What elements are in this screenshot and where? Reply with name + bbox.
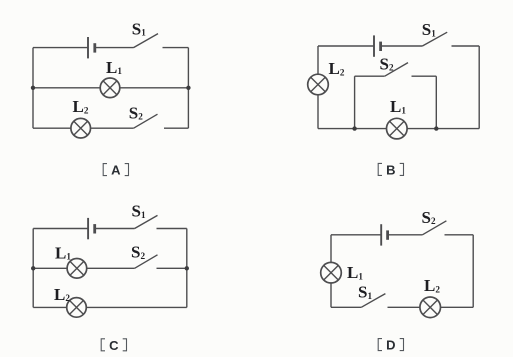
label [A] xyxy=(103,163,128,178)
switch S1 (C) blade xyxy=(135,215,158,228)
wire D left vertical xyxy=(330,235,332,307)
battery D xyxy=(381,224,387,245)
wire B inner contact segment xyxy=(412,75,437,77)
wire A left vertical xyxy=(32,48,34,129)
wire D battery to switch xyxy=(388,234,423,236)
lamp L1 (A) xyxy=(100,78,120,98)
lamp L2 (D) xyxy=(420,297,441,318)
lamp L2 (B) xyxy=(308,74,329,95)
wire C left vertical xyxy=(32,229,34,308)
wire B right vertical xyxy=(478,46,480,129)
wire A middle branch xyxy=(33,87,188,89)
lamp L1 (D) xyxy=(321,262,342,283)
node dot C right xyxy=(185,266,189,270)
wire C middle contact segment xyxy=(157,267,187,269)
svg-text:D: D xyxy=(386,338,395,353)
switch S2 (D) blade xyxy=(422,221,446,235)
battery C xyxy=(88,218,95,239)
wire B battery to switch xyxy=(381,45,423,47)
lamp L2 (C) xyxy=(67,298,87,318)
wire D right vertical xyxy=(472,235,474,307)
label [C] xyxy=(101,338,126,353)
switch S1 (A) blade xyxy=(134,34,159,48)
svg-text:A: A xyxy=(111,163,121,178)
wire B inner-right vertical xyxy=(435,76,437,128)
label [D] xyxy=(378,338,403,353)
label [B] xyxy=(378,162,403,177)
wire D bottom-left segment xyxy=(331,306,361,308)
wire C switch contact to top-right corner xyxy=(157,228,187,230)
wire C right vertical xyxy=(186,229,188,308)
wire B left vertical xyxy=(317,46,319,129)
switch S1 (D) blade xyxy=(361,294,385,308)
lamp L1 (C) xyxy=(67,259,87,279)
lamp L2 (A) xyxy=(71,118,91,138)
switch S2 (C) blade xyxy=(135,255,158,268)
wire B top-left segment xyxy=(318,45,374,47)
node dot C left xyxy=(31,266,35,270)
wire A battery to switch xyxy=(95,47,134,49)
node dot B right xyxy=(434,126,438,130)
node dot B left xyxy=(352,126,356,130)
wire D switch contact to top-right corner xyxy=(445,234,474,236)
wire B switch contact to top-right corner xyxy=(452,45,480,47)
wire A right vertical xyxy=(187,48,189,129)
wire B inner top segment xyxy=(355,75,385,77)
wire B inner-left vertical xyxy=(354,76,356,128)
wire B bottom xyxy=(318,128,479,130)
node dot A right xyxy=(186,86,190,90)
switch S2 (B) blade xyxy=(385,63,408,77)
battery B xyxy=(374,35,381,56)
wire A switch S2 contact to bottom-right corner xyxy=(164,127,188,129)
wire A top-left segment xyxy=(33,47,88,49)
switch S1 (B) blade xyxy=(422,32,447,46)
wire A bottom-left segment xyxy=(33,127,134,129)
wire D bottom contact segment xyxy=(388,306,474,308)
battery A xyxy=(88,37,95,58)
svg-text:C: C xyxy=(109,338,119,353)
switch S2 (A) blade xyxy=(134,114,158,128)
wire C top-left segment xyxy=(33,228,88,230)
wire A switch contact to top-right corner xyxy=(163,47,189,49)
node dot A left xyxy=(31,86,35,90)
svg-text:B: B xyxy=(386,162,395,177)
wire C middle branch left part xyxy=(33,267,134,269)
lamp L1 (B) xyxy=(387,118,408,139)
wire C bottom xyxy=(33,306,187,308)
wire D top-left segment xyxy=(331,234,381,236)
wire C battery to switch xyxy=(95,228,135,230)
